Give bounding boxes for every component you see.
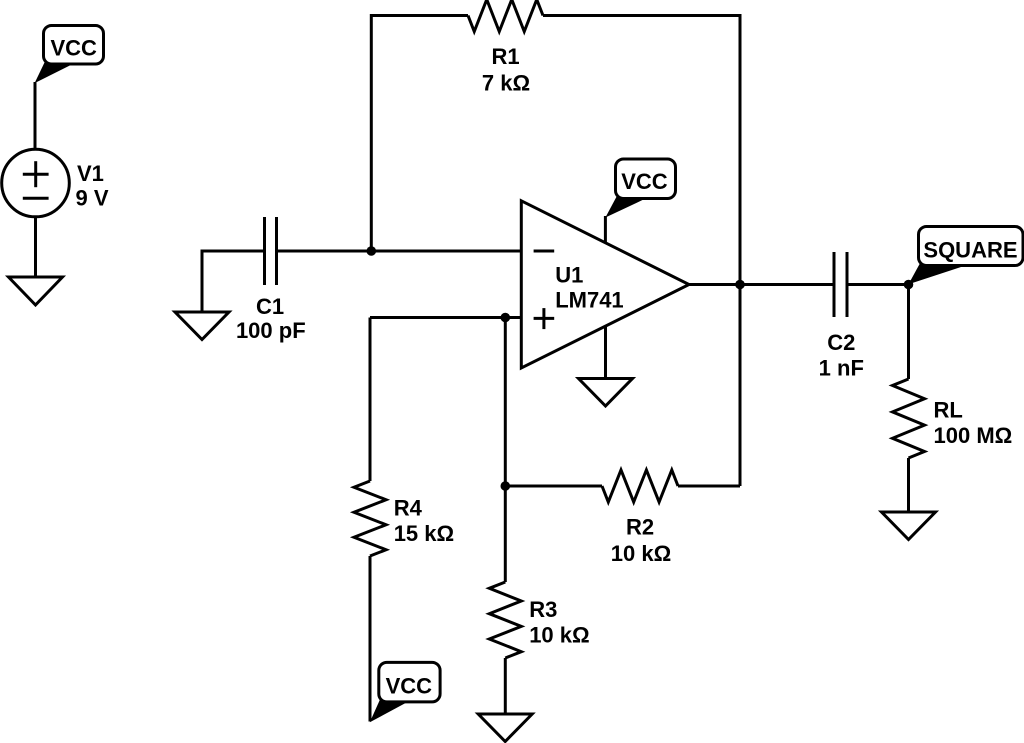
wire op-amp output	[689, 283, 834, 286]
wire node B down to node C	[504, 318, 507, 487]
wire top from node A to R1	[371, 16, 468, 252]
svg-text:RL: RL	[934, 397, 963, 422]
svg-text:LM741: LM741	[555, 287, 623, 312]
svg-text:C2: C2	[827, 330, 855, 355]
svg-text:10 kΩ: 10 kΩ	[529, 623, 589, 648]
svg-text:VCC: VCC	[386, 674, 433, 699]
ground (R3)	[478, 714, 532, 742]
wire node C to R2	[505, 485, 602, 488]
wire square node to RL	[907, 285, 910, 380]
svg-text:100 pF: 100 pF	[236, 318, 306, 343]
ground (C1)	[175, 312, 229, 340]
resistor R3	[489, 582, 521, 658]
wire C1 to op-amp inverting input	[278, 250, 521, 253]
VCC flag (bottom)	[370, 662, 440, 722]
wire C1 ground drop	[202, 251, 263, 312]
resistor R2	[602, 470, 678, 502]
ground (op-amp)	[579, 379, 633, 407]
svg-text:7 kΩ: 7 kΩ	[482, 70, 530, 95]
svg-text:15 kΩ: 15 kΩ	[394, 521, 454, 546]
node A junction dot	[367, 246, 377, 256]
resistor R4	[354, 481, 386, 556]
svg-text:U1: U1	[555, 262, 583, 287]
svg-text:10 kΩ: 10 kΩ	[611, 541, 671, 566]
square node junction dot	[904, 280, 914, 290]
wire V1 to ground	[34, 217, 37, 277]
svg-text:SQUARE: SQUARE	[923, 238, 1017, 263]
voltage source V1	[2, 149, 70, 217]
wire R4 to VCC flag	[369, 556, 372, 722]
wire C2 to square node	[847, 283, 909, 286]
wire non-inverting row	[370, 316, 521, 319]
wire VCC to op-amp top edge	[604, 216, 607, 244]
svg-text:C1: C1	[256, 294, 284, 319]
svg-text:100 MΩ: 100 MΩ	[934, 423, 1013, 448]
op-amp minus sign	[534, 250, 555, 253]
wire VCC to V1	[34, 82, 37, 150]
ground (RL)	[882, 512, 936, 540]
SQUARE flag	[909, 227, 1024, 285]
wire op-amp bottom edge to ground	[604, 326, 607, 378]
wire R3 to ground	[504, 658, 507, 714]
wire node B row to R4	[369, 318, 372, 482]
svg-text:VCC: VCC	[621, 169, 668, 194]
node C junction dot	[501, 481, 511, 491]
svg-text:R4: R4	[394, 495, 423, 520]
capacitor C2	[834, 252, 847, 317]
svg-text:V1: V1	[77, 161, 104, 186]
VCC flag (op-amp)	[605, 159, 675, 218]
capacitor C1	[265, 217, 277, 285]
svg-text:1 nF: 1 nF	[819, 356, 864, 381]
svg-text:R2: R2	[626, 514, 654, 539]
wire R1 to right rail	[543, 16, 740, 487]
output junction dot	[735, 280, 745, 290]
svg-text:9 V: 9 V	[76, 185, 109, 210]
op-amp plus sign	[534, 308, 555, 329]
VCC flag (top-left)	[35, 26, 104, 84]
node B junction dot	[501, 313, 511, 323]
resistor RL	[893, 379, 925, 458]
wire RL to ground	[907, 458, 910, 512]
svg-text:VCC: VCC	[51, 36, 98, 61]
svg-text:R1: R1	[491, 44, 519, 69]
ground (V1)	[9, 277, 63, 305]
svg-text:R3: R3	[529, 597, 557, 622]
wire node C to R3	[504, 486, 507, 582]
resistor R1	[468, 0, 543, 32]
wire R2 to right rail	[678, 485, 740, 488]
op-amp U1	[521, 201, 689, 368]
